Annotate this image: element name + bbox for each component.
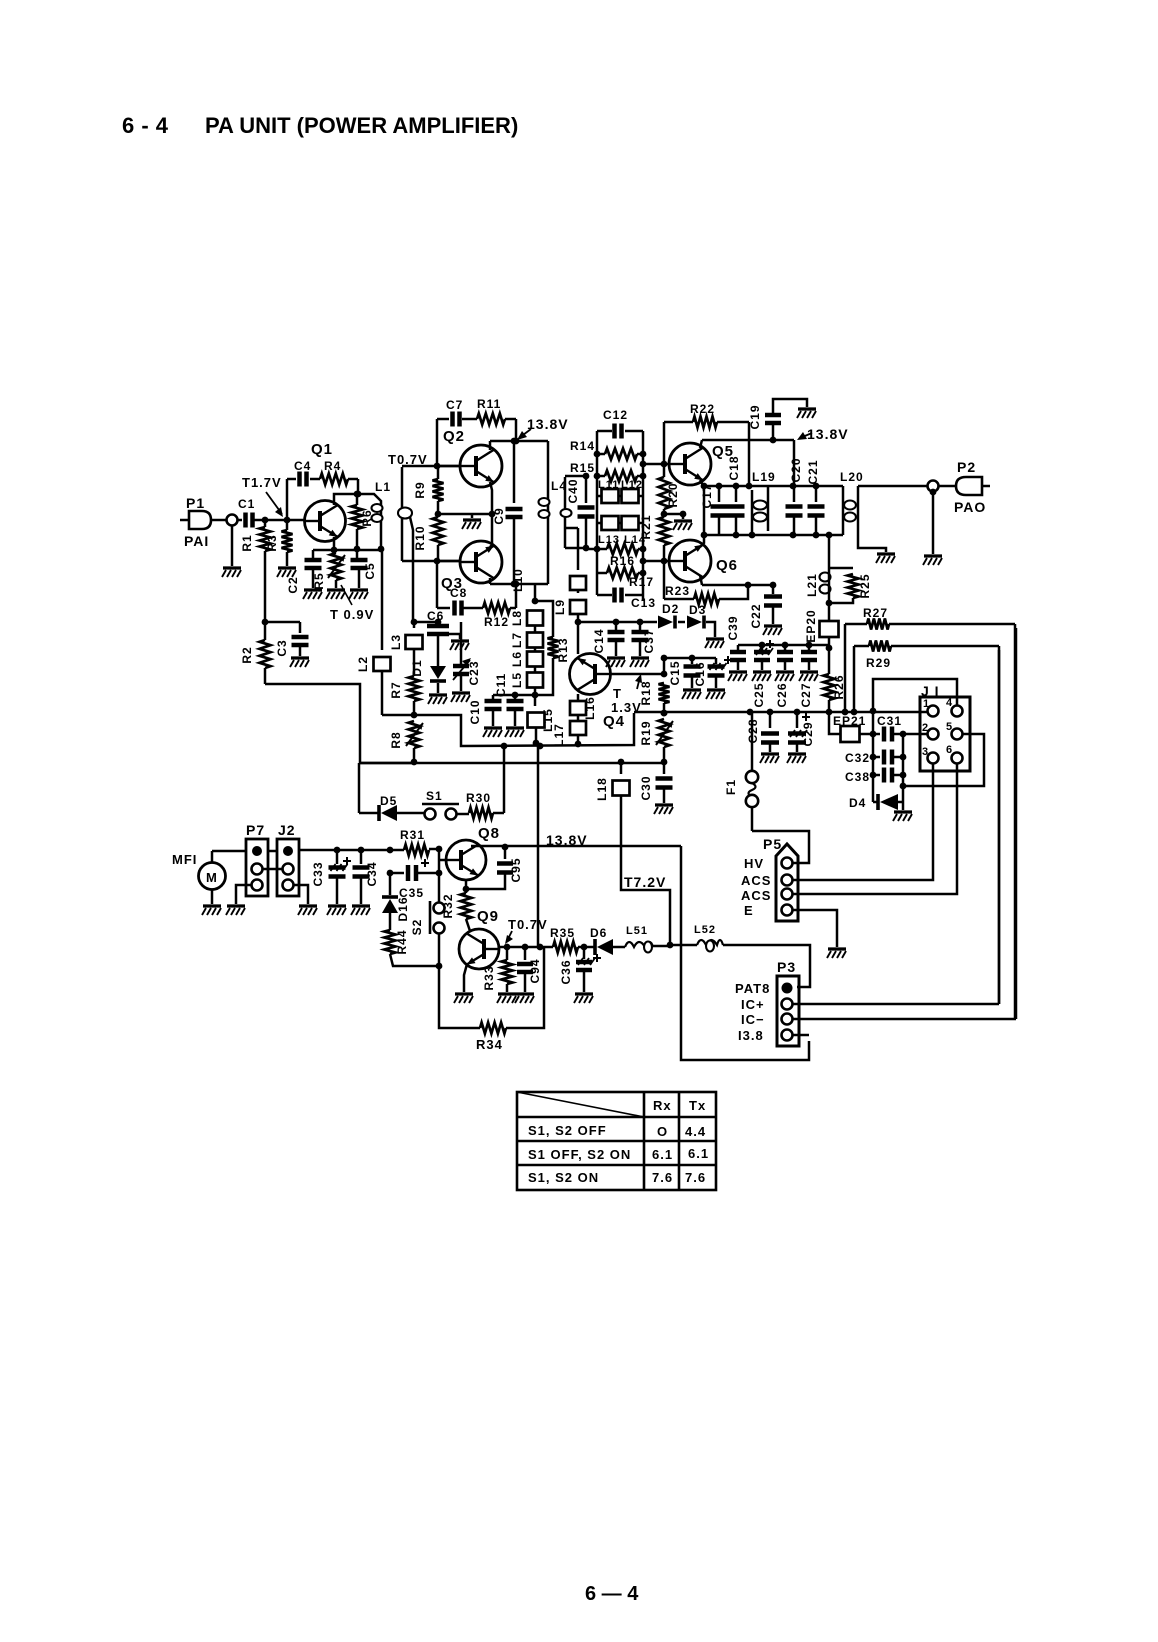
svg-text:C17: C17 xyxy=(700,483,714,508)
svg-text:4.4: 4.4 xyxy=(685,1124,706,1139)
resistor R11 xyxy=(477,414,505,425)
wire xyxy=(462,418,477,421)
svg-text:C1: C1 xyxy=(238,497,255,511)
svg-text:R15: R15 xyxy=(570,461,595,475)
wire Q8 emitter xyxy=(465,880,468,893)
connector J1 xyxy=(920,697,970,771)
ladder top bus xyxy=(704,485,843,488)
svg-text:PA UNIT (POWER AMPLIFIER): PA UNIT (POWER AMPLIFIER) xyxy=(205,113,518,138)
svg-text:C29: C29 xyxy=(801,721,815,746)
ground xyxy=(231,526,234,566)
svg-text:R9: R9 xyxy=(413,481,427,498)
wire bus y549 xyxy=(586,548,607,551)
svg-text:S1, S2 OFF: S1, S2 OFF xyxy=(528,1123,607,1138)
inductor L10 xyxy=(577,528,580,570)
svg-text:13.8V: 13.8V xyxy=(807,426,849,442)
wire Q2 base xyxy=(437,465,460,468)
svg-text:C16: C16 xyxy=(693,661,707,686)
svg-text:R4: R4 xyxy=(324,459,341,473)
wire xyxy=(253,519,305,522)
wire xyxy=(493,812,504,815)
svg-text:C40: C40 xyxy=(566,478,580,503)
wire Q3 base xyxy=(437,560,460,563)
svg-text:L1: L1 xyxy=(375,480,391,494)
svg-text:C34: C34 xyxy=(365,861,379,886)
svg-text:C20: C20 xyxy=(789,457,803,482)
resistor R14 xyxy=(597,453,605,456)
inductor L14 xyxy=(618,522,622,525)
trimmer EP21 xyxy=(829,712,842,734)
svg-text:7.6: 7.6 xyxy=(652,1170,673,1185)
svg-text:P7: P7 xyxy=(246,822,265,838)
svg-text:Q8: Q8 xyxy=(478,825,500,842)
svg-text:C26: C26 xyxy=(775,682,789,707)
inductor L13 xyxy=(597,522,601,525)
wire middle pins xyxy=(262,868,283,871)
cap bank bus xyxy=(738,644,829,647)
svg-text:Q6: Q6 xyxy=(716,557,738,574)
capacitor C5 xyxy=(356,549,359,558)
svg-text:Q2: Q2 xyxy=(443,428,465,445)
top bus 13.8V xyxy=(490,440,548,443)
wire IC- to R27 xyxy=(793,1018,1016,1021)
inductor L21 xyxy=(828,535,831,570)
svg-text:L6: L6 xyxy=(510,651,524,667)
svg-text:C12: C12 xyxy=(603,408,628,422)
pin ACS2 xyxy=(782,889,793,900)
fuse F1 xyxy=(751,712,754,770)
svg-text:5: 5 xyxy=(946,721,953,733)
wire xyxy=(397,812,424,815)
svg-text:R21: R21 xyxy=(639,514,653,539)
pin 1 xyxy=(928,706,939,717)
svg-text:13.8V: 13.8V xyxy=(527,416,569,432)
svg-text:C2: C2 xyxy=(286,576,300,593)
resistor R3 xyxy=(286,520,289,530)
wire R2 row xyxy=(262,619,269,626)
diode D2 xyxy=(640,621,657,624)
resistor R6 xyxy=(356,494,359,505)
capacitor C2 xyxy=(312,550,315,559)
ground xyxy=(471,514,474,518)
resistor R15 xyxy=(597,475,605,478)
svg-text:T0.7V: T0.7V xyxy=(508,917,548,932)
svg-text:L51: L51 xyxy=(626,925,648,937)
capacitor C28 xyxy=(769,712,772,728)
resistor R26 xyxy=(828,648,831,674)
svg-text:O: O xyxy=(657,1124,668,1139)
svg-text:R27: R27 xyxy=(863,606,888,620)
svg-text:IC+: IC+ xyxy=(741,997,765,1012)
transistor Q5 xyxy=(669,443,711,485)
inductor L9 xyxy=(577,590,580,593)
pin IC+ xyxy=(782,999,793,1010)
svg-text:L52: L52 xyxy=(694,924,716,936)
svg-text:C30: C30 xyxy=(639,775,653,800)
svg-text:C7: C7 xyxy=(446,398,463,412)
svg-text:L12: L12 xyxy=(621,479,643,491)
svg-text:T1.7V: T1.7V xyxy=(242,475,282,490)
pin 3 xyxy=(928,753,939,764)
bus B1 xyxy=(360,762,664,765)
capacitor C17 xyxy=(718,486,721,502)
wire xyxy=(264,551,267,622)
wire xyxy=(237,519,242,522)
diode D6 xyxy=(593,939,597,955)
wire emitter xyxy=(333,537,336,550)
svg-text:L5: L5 xyxy=(510,672,524,688)
trimmer EP20 xyxy=(828,603,831,621)
pin PAT8 xyxy=(782,983,793,994)
capacitor C35 xyxy=(438,860,441,873)
svg-text:C39: C39 xyxy=(726,615,740,640)
svg-text:C36: C36 xyxy=(559,959,573,984)
wire xyxy=(510,607,516,610)
svg-text:R3: R3 xyxy=(265,534,279,551)
capacitor C4 xyxy=(297,472,302,487)
svg-text:C14: C14 xyxy=(592,628,606,653)
svg-text:L18: L18 xyxy=(595,777,609,801)
wire Q2 emitter / Q3 collector xyxy=(490,482,492,547)
capacitor C39 xyxy=(737,645,740,650)
svg-text:6 — 4: 6 — 4 xyxy=(585,1583,639,1605)
pin 4 xyxy=(952,706,963,717)
svg-text:6.1: 6.1 xyxy=(688,1146,709,1161)
capacitor C13 xyxy=(597,594,612,597)
capacitor C6 xyxy=(437,622,440,625)
wire pin4 loop xyxy=(873,679,957,711)
svg-text:C9: C9 xyxy=(492,507,506,524)
resistor R34 xyxy=(480,1023,506,1034)
capacitor C22 xyxy=(772,585,775,594)
capacitor C7 xyxy=(450,412,455,427)
svg-text:D6: D6 xyxy=(590,926,607,940)
pin 2 xyxy=(928,729,939,740)
inductor chain L8 L7 L6 L5 xyxy=(534,584,537,601)
resistor R10 xyxy=(433,517,444,545)
transistor Q9 xyxy=(459,929,499,969)
capacitor C16 xyxy=(715,658,718,664)
pin 6 xyxy=(952,753,963,764)
svg-text:6: 6 xyxy=(946,744,953,756)
capacitor C36 xyxy=(583,947,586,959)
wire xyxy=(463,607,483,610)
resistor R29 xyxy=(854,645,869,648)
inductor L51 xyxy=(625,942,653,947)
capacitor C32 xyxy=(873,756,880,759)
svg-text:R44: R44 xyxy=(395,929,409,954)
resistor R22 xyxy=(663,422,666,464)
svg-text:C38: C38 xyxy=(845,770,870,784)
svg-text:R31: R31 xyxy=(400,828,425,842)
capacitor C1 xyxy=(243,513,248,528)
resistor R8 (variable) xyxy=(409,721,420,748)
svg-text:D16: D16 xyxy=(396,896,410,921)
capacitor C34 xyxy=(360,850,363,864)
svg-text:C31: C31 xyxy=(877,714,902,728)
inductor L52 xyxy=(697,940,723,945)
svg-text:R25: R25 xyxy=(858,573,872,598)
svg-text:1: 1 xyxy=(923,698,930,710)
transistor Q2 xyxy=(460,445,502,487)
svg-text:R35: R35 xyxy=(550,926,575,940)
wire ACS2 to J1 pin6 xyxy=(793,763,957,894)
resistor R12 xyxy=(483,603,510,614)
svg-text:C25: C25 xyxy=(752,682,766,707)
inductor L12 xyxy=(618,495,622,498)
svg-text:C13: C13 xyxy=(631,596,656,610)
wire xyxy=(505,418,516,421)
svg-text:C23: C23 xyxy=(467,660,481,685)
wire J2 ground xyxy=(293,885,308,904)
capacitor C19 xyxy=(772,425,775,440)
inductor L3 xyxy=(413,622,416,628)
svg-text:R10: R10 xyxy=(413,525,427,550)
svg-text:L19: L19 xyxy=(752,470,776,484)
svg-text:R30: R30 xyxy=(466,791,491,805)
inductor L19 xyxy=(751,490,754,535)
svg-text:R20: R20 xyxy=(666,482,680,507)
ground xyxy=(932,492,935,554)
svg-text:R16: R16 xyxy=(610,554,635,568)
svg-text:R33: R33 xyxy=(482,965,496,990)
transistor Q6 xyxy=(669,540,711,582)
capacitor C3 xyxy=(299,622,302,633)
input pin xyxy=(227,515,238,526)
svg-text:C27: C27 xyxy=(799,682,813,707)
ground xyxy=(286,552,289,566)
capacitor C15 xyxy=(691,658,694,664)
svg-text:7.6: 7.6 xyxy=(685,1170,706,1185)
resistor R33 xyxy=(506,947,509,960)
svg-text:T 0.9V: T 0.9V xyxy=(330,607,374,622)
ground xyxy=(706,622,715,637)
svg-text:R22: R22 xyxy=(690,402,715,416)
switch S2 xyxy=(438,873,441,902)
wire C6 ground tap xyxy=(449,634,460,639)
svg-text:F1: F1 xyxy=(724,779,738,795)
wire xyxy=(310,478,320,481)
svg-text:L2: L2 xyxy=(356,656,370,672)
svg-text:C32: C32 xyxy=(845,751,870,765)
svg-text:HV: HV xyxy=(744,856,764,871)
svg-text:R19: R19 xyxy=(639,720,653,745)
inductor L18 xyxy=(620,762,623,774)
svg-text:C19: C19 xyxy=(748,404,762,429)
svg-text:2: 2 xyxy=(922,722,929,734)
wire X1 node xyxy=(583,473,590,480)
pin 5 xyxy=(952,729,963,740)
svg-text:S1: S1 xyxy=(426,789,443,803)
svg-text:J2: J2 xyxy=(278,822,296,838)
capacitor C33 xyxy=(336,850,339,864)
pin IC- xyxy=(782,1014,793,1025)
connector P2 xyxy=(956,477,982,495)
bus 849 xyxy=(299,849,404,852)
capacitor C25 xyxy=(761,645,764,650)
svg-text:C94: C94 xyxy=(528,958,542,983)
output pin xyxy=(928,481,939,492)
ground xyxy=(902,802,905,810)
wire Q8 base xyxy=(438,849,441,860)
svg-text:C5: C5 xyxy=(363,562,377,579)
wire xyxy=(211,851,214,862)
inductor L2 xyxy=(381,549,384,650)
wire Q5 collector xyxy=(700,440,702,448)
capacitor C11 xyxy=(514,695,517,700)
resistor R35 xyxy=(553,942,578,953)
svg-text:Q9: Q9 xyxy=(477,908,499,925)
resistor R2 xyxy=(260,640,271,668)
svg-text:R17: R17 xyxy=(629,575,654,589)
svg-text:6.1: 6.1 xyxy=(652,1147,673,1162)
switch S1 row xyxy=(358,763,361,813)
svg-text:L7: L7 xyxy=(510,632,524,648)
connector P7 xyxy=(246,839,268,896)
svg-text:R13: R13 xyxy=(556,637,570,662)
inductor L17 xyxy=(577,715,580,721)
wire xyxy=(211,519,227,522)
wire Q9 bias drop xyxy=(537,746,540,947)
wire HV xyxy=(752,831,809,863)
resistor R44 xyxy=(389,913,392,930)
wire L20 secondary bottom xyxy=(858,535,886,552)
resistor R9 xyxy=(437,466,440,479)
capacitor C40 xyxy=(585,476,588,503)
wire C6 row xyxy=(413,621,438,624)
wire xyxy=(653,945,670,948)
wire Q9 base row xyxy=(499,946,553,949)
inductor L15 xyxy=(534,695,537,706)
svg-text:C21: C21 xyxy=(806,459,820,484)
resistor R20 xyxy=(659,477,670,509)
svg-text:P5: P5 xyxy=(763,836,782,852)
main bus xyxy=(634,711,929,714)
svg-text:L21: L21 xyxy=(805,573,819,597)
svg-text:M: M xyxy=(206,870,218,885)
wire Q9 emitter xyxy=(464,964,467,992)
resistor R17 xyxy=(596,549,599,595)
capacitor C29 xyxy=(796,712,799,728)
resistor R1 xyxy=(264,520,267,527)
resistor R7 xyxy=(413,649,416,676)
wire ACS to J1 pin3 xyxy=(793,763,933,880)
rail 13.8V xyxy=(471,845,681,848)
left box vertical xyxy=(596,431,599,549)
svg-text:L9: L9 xyxy=(553,599,567,615)
svg-text:R7: R7 xyxy=(389,681,403,698)
wire xyxy=(578,946,594,949)
wire Q3 emitter xyxy=(489,578,492,584)
diode D16 xyxy=(389,873,392,895)
connector J2 xyxy=(277,839,299,896)
node xyxy=(262,517,269,524)
wire Q5 emitter to Q6 collector xyxy=(700,480,704,547)
capacitor C95 xyxy=(504,847,507,859)
svg-text:Tx: Tx xyxy=(689,1098,706,1113)
svg-text:C3: C3 xyxy=(275,639,289,656)
svg-text:S1, S2 ON: S1, S2 ON xyxy=(528,1170,599,1185)
svg-text:PAI: PAI xyxy=(184,533,209,549)
wire EP21 column xyxy=(872,711,875,775)
svg-text:ACS: ACS xyxy=(741,873,771,888)
svg-text:PAO: PAO xyxy=(954,499,986,515)
wire collector xyxy=(334,494,358,505)
resistor R13 xyxy=(535,601,553,637)
svg-text:R5: R5 xyxy=(312,572,326,589)
svg-text:E: E xyxy=(744,903,754,918)
svg-text:R11: R11 xyxy=(477,397,501,411)
wire L20 secondary top xyxy=(858,485,928,488)
capacitor C94 xyxy=(524,947,527,960)
svg-text:C37: C37 xyxy=(642,628,656,653)
wire base row Q5 xyxy=(643,463,669,466)
svg-text:T7.2V: T7.2V xyxy=(624,874,666,890)
wire bias row xyxy=(438,513,492,516)
resistor R4 xyxy=(320,474,348,485)
capacitor C30 xyxy=(663,762,666,774)
diode D3 xyxy=(678,621,685,624)
connector P3 xyxy=(777,976,799,1046)
resistor R21 xyxy=(659,517,670,545)
svg-text:C8: C8 xyxy=(450,586,467,600)
rail drop 13.8V xyxy=(681,846,809,1060)
table xyxy=(517,1092,716,1190)
connector P5 xyxy=(776,844,798,921)
capacitor C14 xyxy=(578,621,640,624)
wire R34 loop xyxy=(439,966,480,1028)
svg-text:R8: R8 xyxy=(389,731,403,748)
resistor R16 xyxy=(607,544,638,555)
pin ACS xyxy=(782,875,793,886)
svg-text:R14: R14 xyxy=(570,439,595,453)
inductor L1 secondary xyxy=(401,467,404,561)
svg-text:D2: D2 xyxy=(662,602,679,616)
inductor L11 xyxy=(597,495,601,498)
capacitor C31 xyxy=(873,733,880,736)
wire C7/R11 row xyxy=(436,419,439,466)
svg-text:C33: C33 xyxy=(311,861,325,886)
ground tap xyxy=(664,513,683,516)
wire xyxy=(457,813,469,816)
svg-text:4: 4 xyxy=(946,697,953,709)
transistor Q4 xyxy=(570,654,611,695)
transistor Q3 xyxy=(460,541,502,583)
wire IC+ to R29 xyxy=(793,1003,999,1006)
svg-text:T0.7V: T0.7V xyxy=(388,452,428,467)
capacitor C23 xyxy=(460,622,463,664)
wire xyxy=(268,850,277,853)
wire base row Q6 xyxy=(643,560,669,563)
inductor L1 primary xyxy=(358,494,381,549)
svg-text:C11: C11 xyxy=(494,673,508,697)
svg-text:L16: L16 xyxy=(583,696,597,720)
svg-text:3: 3 xyxy=(922,746,929,758)
svg-text:R18: R18 xyxy=(639,680,653,705)
wire W1 xyxy=(382,713,634,746)
capacitor C27 xyxy=(808,645,811,650)
svg-text:C95: C95 xyxy=(509,857,523,882)
svg-text:EP21: EP21 xyxy=(833,714,866,728)
wire pin5 loop xyxy=(903,734,984,786)
inductor L16 xyxy=(577,694,580,701)
svg-text:L10: L10 xyxy=(511,568,525,592)
bus 13.8V right xyxy=(702,439,794,442)
svg-text:C10: C10 xyxy=(468,699,482,724)
resistor R30 xyxy=(469,808,493,819)
capacitor C8 xyxy=(452,601,457,616)
svg-text:R29: R29 xyxy=(866,656,891,670)
